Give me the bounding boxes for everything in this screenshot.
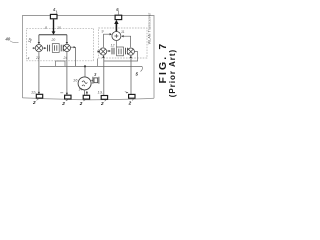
label tick (left of pad P4): [60, 92, 63, 94]
label 26 (below pad P5): [79, 100, 86, 106]
mixer U1 (RX mixer I): [35, 45, 42, 52]
wire: arrow into U3 from left: [96, 51, 99, 53]
svg-text:9: 9: [102, 30, 104, 34]
label 40 (chip reference, left margin): [5, 37, 19, 43]
summer U5 (TX combiner): [112, 32, 121, 41]
arrowhead into pad P3: [38, 92, 40, 94]
filter F2 (TX filter box): [117, 47, 124, 56]
node J1 (junction above oscillator): [84, 65, 86, 67]
svg-text:FIG. 7: FIG. 7: [157, 42, 169, 84]
filter F1 (RX channel filter box): [52, 44, 59, 53]
svg-text:12: 12: [111, 44, 115, 48]
label arrow (left of pad P7): [125, 92, 128, 93]
label 4 (top-left pad): [52, 7, 57, 14]
wire: splitter left drop to mixer U1: [38, 35, 40, 43]
svg-text:16: 16: [73, 78, 78, 83]
pad P6 (TX I in, bottom): [101, 96, 107, 100]
wire: mixer U1 output arrow to filter: [43, 47, 45, 49]
svg-text:11: 11: [121, 30, 125, 34]
svg-text:2: 2: [79, 101, 83, 106]
svg-text:24: 24: [63, 56, 68, 60]
svg-text:4: 4: [28, 57, 30, 61]
capacitor C1 (coupling caps): [48, 45, 50, 52]
wire: U4 right loop down: [104, 52, 138, 61]
svg-text:40: 40: [5, 37, 11, 42]
mixer U3 (TX mixer I): [100, 48, 107, 55]
pad P1 (antenna input, top left): [50, 14, 57, 18]
pad P3 (RX I out, bottom): [36, 94, 42, 98]
wire: mixer U2 output arrow right: [71, 46, 75, 48]
capacitor C2b (TX coupling caps): [126, 48, 128, 55]
svg-text:WLAN Transceiver: WLAN Transceiver: [147, 12, 151, 44]
label 6 (top-right pad): [116, 7, 119, 15]
TX sub-block dashed box: [99, 28, 148, 58]
crystal Y1: [91, 77, 99, 84]
label 30 (below pad P7): [128, 99, 134, 105]
label 5 (LO rail leader): [141, 66, 143, 71]
svg-text:6: 6: [116, 7, 119, 12]
label 24 (below pad P4): [61, 100, 68, 106]
label 13 (left of pad P6): [98, 90, 103, 94]
svg-text:14: 14: [79, 88, 83, 92]
svg-text:2: 2: [61, 101, 65, 106]
wire: RX input thick line from pad P1 down: [53, 20, 55, 32]
wire: arrow into mixer U2: [63, 47, 65, 49]
wire: RX I output down to pad P3: [38, 52, 40, 95]
wire: short vertical stub left of TX block: [97, 59, 99, 67]
svg-text:10: 10: [57, 26, 61, 30]
wire: arrow into mixer U1 from left: [32, 47, 34, 49]
svg-text:4: 4: [52, 7, 56, 12]
wire: TX I mixer up-feed into summer: [104, 34, 111, 47]
pad P2 (TX output, top right): [115, 15, 122, 19]
oscillator X1 (VCO circle): [78, 77, 91, 90]
svg-text:3: 3: [94, 72, 97, 77]
wire: arrow into mixer U4: [128, 50, 130, 52]
capacitor C2a (TX coupling caps): [112, 48, 114, 55]
wire: TX output thick arrow up to pad P2: [115, 23, 117, 31]
mixer U4 (TX mixer Q): [127, 48, 134, 55]
svg-text:(Prior Art): (Prior Art): [168, 49, 177, 97]
wire: TX Q mixer up-feed into summer: [123, 36, 131, 47]
wire: TX I baseband up from pad P6: [103, 56, 105, 96]
wire: rail jog under RX block: [56, 61, 66, 66]
chip outer border (WLAN transceiver boundary): [23, 16, 155, 99]
label 12a (left of pad P3): [31, 91, 37, 95]
chip bottom border (scan sag): [23, 98, 155, 100]
svg-text:18: 18: [27, 37, 33, 44]
label 22 (below pad P3): [32, 99, 39, 105]
mixer U2 (RX mixer Q): [63, 44, 70, 51]
svg-text:2: 2: [32, 100, 36, 105]
svg-text:2: 2: [128, 100, 132, 105]
pad P7 (TX Q in, bottom): [129, 94, 135, 98]
svg-text:20: 20: [51, 38, 56, 42]
wire: junction down to oscillator: [84, 66, 86, 76]
wire: LO distribution rail: [40, 65, 142, 67]
svg-text:8: 8: [45, 26, 47, 30]
label 28 (below pad P6): [100, 100, 106, 106]
arrowhead into splitter bar: [52, 31, 56, 34]
svg-text:5: 5: [136, 72, 139, 77]
wire: vertical from U2 output to LO rail: [75, 47, 77, 66]
wire: summer stub down to TX filter: [115, 41, 117, 48]
wire: RX splitter bar: [39, 34, 67, 36]
wire: oscillator down to pad P5 with arrowhead: [85, 90, 87, 96]
wire: U3 output arrow right: [107, 50, 109, 52]
wire: splitter right drop to mixer U2: [66, 35, 68, 43]
capacitor C1b (coupling caps): [61, 45, 63, 52]
wire: TX Q baseband up from pad P7: [130, 56, 132, 95]
svg-text:2: 2: [100, 101, 104, 106]
svg-text:13: 13: [98, 90, 103, 94]
pad P4 (RX Q out, bottom): [65, 95, 71, 99]
pad P5 (osc, bottom): [83, 95, 89, 99]
wire: RX Q output down to pad P4: [66, 52, 68, 96]
arrowhead into pad P4: [66, 93, 68, 95]
svg-text:22: 22: [35, 56, 40, 60]
RX sub-block dashed box: [27, 28, 94, 61]
